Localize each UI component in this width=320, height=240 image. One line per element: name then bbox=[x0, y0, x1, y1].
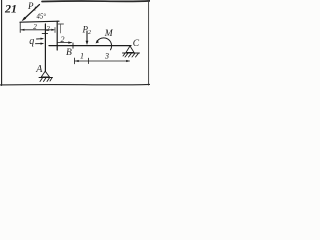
beam BC bbox=[49, 45, 131, 47]
top member bbox=[20, 21, 59, 22]
svg-text:21: 21 bbox=[4, 2, 17, 16]
border top bbox=[42, 0, 150, 3]
svg-text:A: A bbox=[35, 64, 43, 75]
svg-text:C: C bbox=[133, 39, 140, 49]
svg-text:2: 2 bbox=[33, 23, 37, 31]
border left bbox=[1, 0, 3, 86]
support A bbox=[39, 71, 53, 81]
moment M arc bbox=[96, 38, 112, 50]
svg-text:2: 2 bbox=[46, 25, 50, 33]
svg-text:2: 2 bbox=[61, 35, 65, 44]
svg-text:1: 1 bbox=[80, 52, 84, 61]
border right bbox=[148, 1, 150, 85]
svg-text:B: B bbox=[66, 48, 72, 58]
column top tick bbox=[42, 33, 47, 35]
node B tick bbox=[72, 43, 74, 48]
force P2 bbox=[86, 31, 89, 45]
extension line left bbox=[19, 23, 21, 33]
border bottom bbox=[0, 83, 150, 86]
column A bbox=[44, 24, 46, 71]
svg-text:3: 3 bbox=[104, 52, 109, 61]
svg-text:M: M bbox=[104, 29, 114, 39]
force P1 arrow bbox=[22, 5, 40, 22]
vertical member bbox=[56, 21, 58, 50]
dimension 2 top bbox=[21, 28, 55, 33]
dimension 2 vertical ticks bbox=[58, 24, 63, 33]
svg-text:q: q bbox=[29, 36, 34, 47]
dimension line 1 and 3 bbox=[75, 58, 131, 64]
support C bbox=[123, 46, 140, 57]
dimension 2 beam bbox=[58, 41, 73, 43]
svg-text:45°: 45° bbox=[37, 14, 47, 21]
load q arrows bbox=[36, 38, 45, 45]
